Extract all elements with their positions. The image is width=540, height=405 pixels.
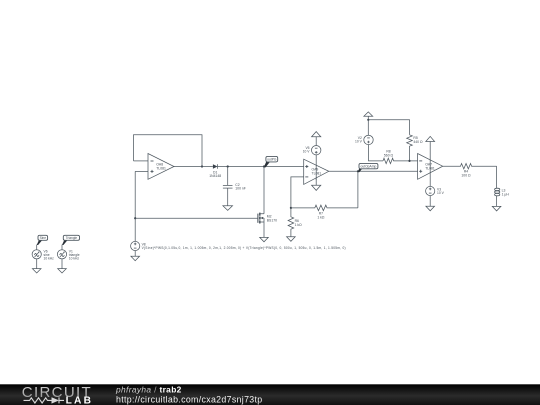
svg-text:10 V: 10 V xyxy=(355,140,363,144)
wire M2 drain riser xyxy=(263,167,265,214)
power VCC arrow mid xyxy=(364,112,373,116)
flag outOpAmp xyxy=(358,163,378,172)
ground under V3 xyxy=(426,206,435,211)
svg-text:100 Ω: 100 Ω xyxy=(461,173,471,177)
wire feedback drop xyxy=(357,171,359,208)
wire V1 to ground xyxy=(61,259,63,269)
wire OA9 positive supply xyxy=(315,155,317,180)
wire V6 to ground xyxy=(36,259,38,269)
wire OA8 output xyxy=(174,166,213,168)
node capacitor junction xyxy=(227,165,229,167)
wire V2 to R8 xyxy=(369,145,384,161)
power VEE arrow below OA9 xyxy=(312,185,321,190)
transistor M2 BS170 xyxy=(258,213,277,238)
resistor R7 1 kOhm xyxy=(291,205,358,219)
wire VCC stem xyxy=(367,116,369,120)
wire V5 to VCC arrow xyxy=(315,137,317,146)
wire left column to V8 xyxy=(134,171,136,241)
ground under L3 xyxy=(492,206,501,211)
resistor R4 100 Ohm xyxy=(443,164,497,178)
power VCC arrow above OA7 xyxy=(426,136,435,141)
node OA9 output feedback junction xyxy=(357,170,359,172)
svg-text:10 V: 10 V xyxy=(303,150,311,154)
resistor R6 1 kOhm xyxy=(288,208,302,237)
wire V3 to ground xyxy=(429,196,431,207)
flag outPG xyxy=(264,156,278,167)
svg-text:outPG: outPG xyxy=(267,158,277,162)
flag Sine xyxy=(37,235,48,245)
resistor R8 560 Ohm xyxy=(383,150,418,164)
svg-text:1 kΩ: 1 kΩ xyxy=(295,223,303,227)
wire OA9 negative supply xyxy=(315,178,317,185)
svg-text:560 Ω: 560 Ω xyxy=(384,153,394,157)
ground under V8 xyxy=(131,256,140,261)
wire OA8 feedback loop xyxy=(134,135,203,167)
node R6 R7 junction xyxy=(290,207,292,209)
inductor L3 1 uH xyxy=(495,166,510,206)
wire gate rail xyxy=(135,217,258,219)
svg-text:phfrayha / trab2: phfrayha / trab2 xyxy=(115,385,182,395)
node R8 R5 junction xyxy=(408,160,410,162)
svg-text:BS170: BS170 xyxy=(267,218,277,222)
svg-text:1N4148: 1N4148 xyxy=(209,174,221,178)
svg-text:LAB: LAB xyxy=(66,396,94,405)
wire OA9 output to OA7 xyxy=(329,170,418,172)
wire VCC to V2 xyxy=(367,120,369,135)
voltage source V1 triangle 10 kHz xyxy=(57,249,79,260)
wire OA8 noninverting input xyxy=(135,170,148,172)
svg-text:100 nF: 100 nF xyxy=(235,187,246,191)
node outPG junction xyxy=(263,165,265,167)
resistor R5 440 Ohm xyxy=(407,135,423,161)
svg-text:http://circuitlab.com/cxa2d7sn: http://circuitlab.com/cxa2d7snj73tp xyxy=(116,395,263,405)
ground under V6 xyxy=(32,269,41,273)
svg-text:outOpAmp: outOpAmp xyxy=(361,165,377,169)
voltage source V3 10 V xyxy=(426,186,445,195)
power VCC arrow above OA9 xyxy=(312,132,321,137)
svg-text:V(Sine)*PWS(0,1.05u,0, 1m, 1,: V(Sine)*PWS(0,1.05u,0, 1m, 1, 1.005m, 0,… xyxy=(142,246,346,250)
wire Sine flag stem xyxy=(36,245,38,250)
wire OA8 inverting input xyxy=(134,160,149,162)
wire Triangle flag stem xyxy=(61,245,63,250)
op-amp U1 OA8 xyxy=(148,154,174,180)
wire OA7 positive supply xyxy=(429,142,431,173)
node OA8 output junction xyxy=(201,165,203,167)
op-amp U3 OA7 xyxy=(418,154,443,180)
voltage source V8 behavioral xyxy=(131,241,346,250)
diode D1 1N4148 xyxy=(209,164,221,178)
svg-text:10 V: 10 V xyxy=(437,191,445,195)
wire OA7 negative supply xyxy=(429,173,431,187)
svg-text:1 kΩ: 1 kΩ xyxy=(317,215,325,219)
svg-text:Triangle: Triangle xyxy=(66,236,78,240)
node gate rail junction xyxy=(134,217,136,219)
svg-text:1 μH: 1 μH xyxy=(502,192,510,196)
svg-text:10 kHz: 10 kHz xyxy=(44,257,55,261)
svg-text:10 kHz: 10 kHz xyxy=(69,257,80,261)
ground under M2 xyxy=(260,237,269,241)
wire VCC to R5 xyxy=(368,120,409,135)
op-amp U2 OA9 xyxy=(304,159,329,184)
voltage source V2 10 V xyxy=(355,135,373,144)
voltage source V6 sine 10 kHz xyxy=(32,249,54,260)
ground under R6 xyxy=(287,237,296,242)
svg-text:TL081: TL081 xyxy=(156,167,166,171)
node VCC junction xyxy=(367,119,369,121)
svg-text:Sine: Sine xyxy=(40,236,47,240)
voltage source V5 10 V xyxy=(303,146,321,155)
wire OA9 inverting input xyxy=(291,177,304,208)
svg-text:440 Ω: 440 Ω xyxy=(413,140,423,144)
ground under V1 xyxy=(58,269,67,273)
wire V8 to ground xyxy=(134,251,136,257)
capacitor C2 100 nF xyxy=(223,167,246,206)
wire diode to OA9 input xyxy=(218,166,304,168)
flag Triangle xyxy=(62,235,80,245)
ground under C2 xyxy=(223,206,233,211)
